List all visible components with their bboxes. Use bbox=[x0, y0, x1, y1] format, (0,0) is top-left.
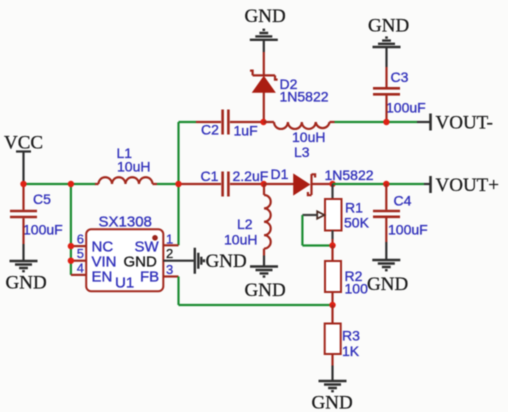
svg-text:GND: GND bbox=[367, 274, 408, 295]
svg-text:VOUT+: VOUT+ bbox=[436, 175, 500, 196]
port VOUT- bbox=[417, 113, 493, 134]
svg-text:100uF: 100uF bbox=[23, 222, 63, 238]
wire pins branch to L1 bbox=[71, 183, 96, 185]
capacitor C5 bbox=[10, 184, 63, 244]
inductor L3 bbox=[264, 122, 335, 160]
node pins branch junction bbox=[68, 181, 74, 187]
ground GND above C3 (flipped) bbox=[368, 16, 409, 68]
node R2/R3/FB junction bbox=[329, 302, 335, 308]
svg-text:GND: GND bbox=[312, 393, 353, 412]
node R1/R2 junction bbox=[329, 242, 335, 248]
wire pins branch vertical bbox=[70, 184, 72, 275]
svg-text:GND: GND bbox=[6, 273, 47, 294]
diode D1 1N5822 (schottky, horizontal) bbox=[264, 166, 374, 195]
node pin 5 junction bbox=[68, 258, 74, 264]
wire L3 to C3 node bbox=[335, 121, 418, 123]
svg-text:D1: D1 bbox=[271, 166, 289, 182]
node pin 6 junction bbox=[68, 243, 74, 249]
svg-text:100uF: 100uF bbox=[388, 222, 428, 238]
resistor R1 50K (potentiometer) bbox=[317, 184, 369, 246]
resistor R3 1K bbox=[325, 305, 360, 366]
svg-text:GND: GND bbox=[206, 251, 247, 272]
svg-text:R1: R1 bbox=[345, 200, 363, 216]
node SW rail junction bbox=[175, 181, 181, 187]
diode D2 1N5822 (schottky, vertical, cathode up) bbox=[250, 52, 329, 122]
resistor R2 100 bbox=[325, 246, 368, 306]
svg-text:4: 4 bbox=[77, 261, 84, 276]
svg-text:C2: C2 bbox=[201, 122, 219, 138]
svg-text:3: 3 bbox=[166, 262, 173, 277]
ground GND below C5 bbox=[6, 244, 47, 294]
svg-text:L2: L2 bbox=[237, 216, 253, 232]
svg-text:2: 2 bbox=[166, 246, 173, 261]
pin 1 SW stub bbox=[163, 232, 178, 247]
capacitor C4 bbox=[373, 184, 428, 242]
ground GND below C4 bbox=[367, 242, 408, 295]
wire L1 to SW node bbox=[157, 183, 179, 185]
pin 3 FB stub bbox=[163, 262, 178, 277]
svg-text:10uH: 10uH bbox=[292, 129, 325, 145]
svg-text:SX1308: SX1308 bbox=[99, 214, 152, 231]
ground GND below R3 bbox=[312, 366, 353, 412]
svg-text:GND: GND bbox=[368, 16, 409, 37]
svg-text:1N5822: 1N5822 bbox=[325, 167, 374, 183]
svg-text:C1: C1 bbox=[201, 168, 219, 184]
wire VCC node to pins branch bbox=[24, 183, 71, 185]
wire R1 wiper bbox=[302, 215, 332, 246]
svg-text:VOUT-: VOUT- bbox=[436, 113, 493, 134]
node C4/VOUT+ junction bbox=[383, 181, 389, 187]
node C1/L2/D1 junction bbox=[261, 181, 267, 187]
wire FB down bbox=[177, 277, 179, 306]
pin 5 VIN stub bbox=[71, 246, 86, 261]
node C2/D2/L3 junction bbox=[260, 119, 266, 125]
svg-text:C4: C4 bbox=[394, 193, 412, 209]
port VOUT+ bbox=[424, 175, 499, 196]
ground GND below L2 bbox=[245, 256, 286, 302]
svg-text:FB: FB bbox=[140, 269, 159, 286]
node C3/VOUT- junction bbox=[383, 119, 389, 125]
svg-text:100: 100 bbox=[345, 281, 369, 297]
inductor L1 bbox=[95, 145, 157, 184]
wire D1 node to C4 node bbox=[333, 183, 387, 185]
capacitor C2 bbox=[196, 110, 264, 139]
node D1/R1 junction bbox=[329, 181, 335, 187]
svg-text:EN: EN bbox=[92, 269, 113, 286]
svg-text:C3: C3 bbox=[391, 69, 409, 85]
svg-text:U1: U1 bbox=[115, 275, 134, 292]
svg-text:50K: 50K bbox=[344, 215, 370, 231]
svg-text:GND: GND bbox=[245, 280, 286, 301]
svg-text:100uF: 100uF bbox=[386, 100, 426, 116]
ground GND above D2 (flipped) bbox=[245, 6, 286, 52]
svg-text:10uH: 10uH bbox=[117, 159, 150, 175]
pin 2 GND stub bbox=[163, 246, 193, 261]
node VCC/C5 junction bbox=[20, 181, 26, 187]
svg-text:5: 5 bbox=[77, 246, 84, 261]
svg-text:1uF: 1uF bbox=[234, 123, 258, 139]
svg-text:1K: 1K bbox=[342, 343, 360, 359]
wire SW node vertical (C2 corner down to pin 1) bbox=[177, 122, 179, 245]
svg-text:R3: R3 bbox=[342, 328, 360, 344]
wire FB horizontal to R2/R3 node bbox=[179, 304, 333, 306]
capacitor C1 bbox=[179, 168, 269, 197]
inductor L2 (vertical) bbox=[224, 184, 271, 256]
svg-text:GND: GND bbox=[245, 6, 286, 27]
svg-text:VCC: VCC bbox=[4, 133, 43, 154]
wire SW corner to C2 bbox=[179, 121, 197, 123]
pin 4 EN stub bbox=[71, 261, 86, 276]
svg-text:C5: C5 bbox=[33, 191, 51, 207]
op-amp U1 SX1308 IC body bbox=[86, 214, 163, 292]
pin 6 NC stub bbox=[71, 232, 86, 247]
wire C4 node to VOUT+ bbox=[386, 183, 424, 185]
svg-text:1N5822: 1N5822 bbox=[280, 89, 329, 105]
svg-text:6: 6 bbox=[77, 232, 84, 247]
ground GND at pin 2 (rotated) bbox=[195, 248, 247, 274]
power port VCC bbox=[4, 133, 43, 185]
capacitor C3 bbox=[373, 67, 426, 122]
svg-text:L3: L3 bbox=[294, 144, 310, 160]
svg-text:10uH: 10uH bbox=[224, 232, 257, 248]
